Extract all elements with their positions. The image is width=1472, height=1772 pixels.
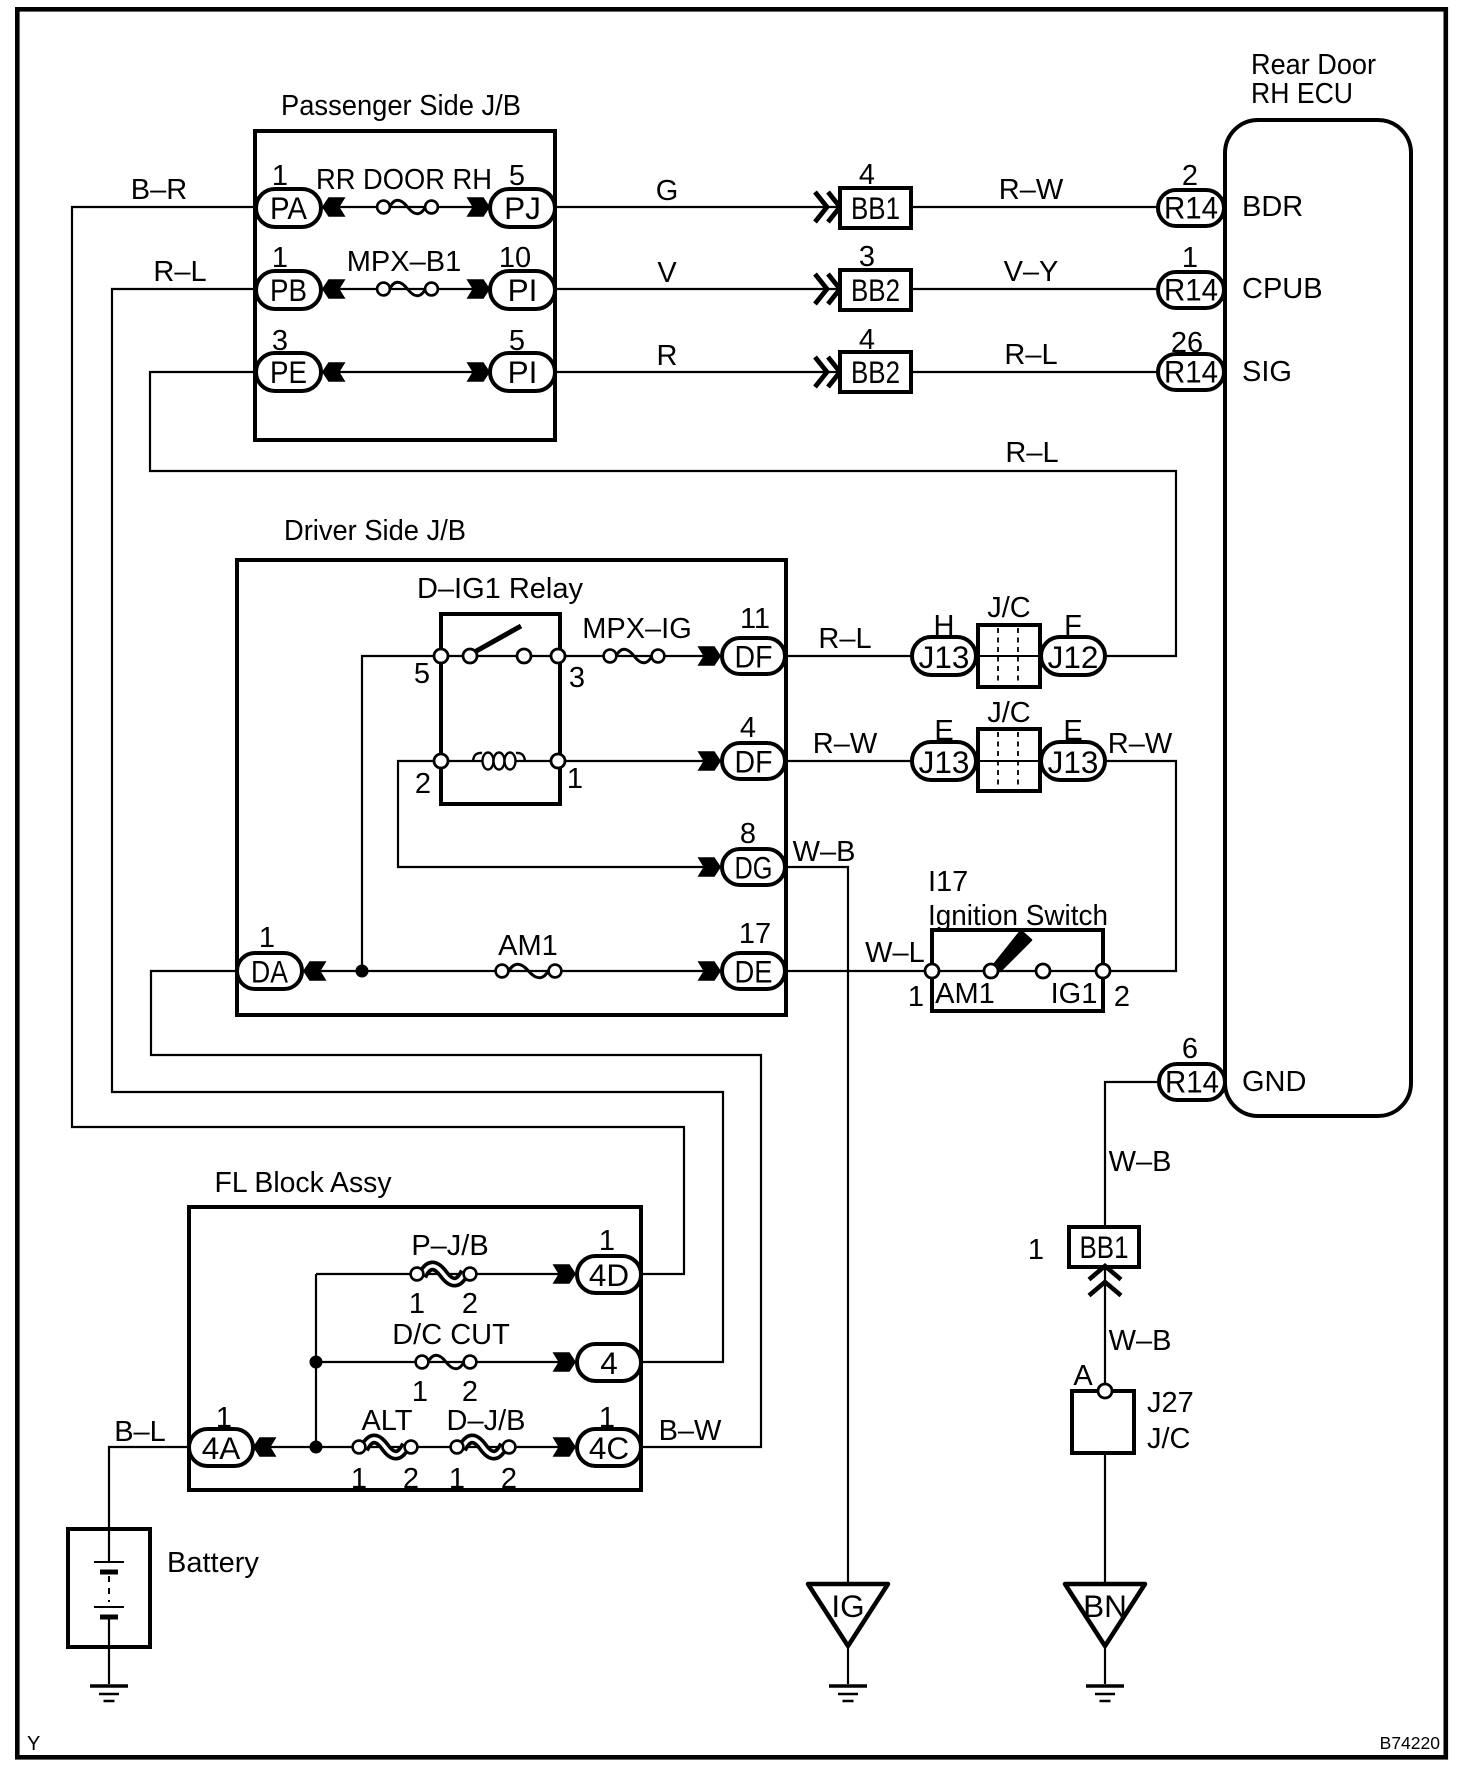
svg-text:BB1: BB1 <box>1080 1229 1129 1265</box>
wire BN triangle to ground <box>1104 1646 1106 1684</box>
svg-text:R–W: R–W <box>999 174 1064 206</box>
connector 4A pin1 <box>189 1429 253 1466</box>
ignition terminal IG1 <box>1036 964 1050 978</box>
svg-text:4D: 4D <box>589 1257 629 1293</box>
connector DF pin4 <box>722 743 785 779</box>
wire B-R: PA pin1 to FL 4D via left side <box>72 207 684 1274</box>
BN ground triangle <box>1065 1584 1145 1646</box>
wire DA junction to relay pin5 <box>362 656 441 971</box>
D-IG1 Relay box <box>441 614 560 804</box>
svg-text:1: 1 <box>599 1402 615 1434</box>
wire R-L: PE pin3 to J12 F via top route <box>150 372 1176 656</box>
wire G: PJ to BB1 <box>555 206 840 208</box>
svg-text:W–B: W–B <box>793 836 856 868</box>
connector R14 pin26 SIG <box>1158 354 1224 390</box>
svg-text:5: 5 <box>509 325 525 357</box>
connector BB2 pin3 <box>840 270 911 310</box>
chevron below BB1 <box>1089 1266 1121 1296</box>
wire R-W: DF4 to J13 E <box>785 760 912 762</box>
relay coil <box>473 753 525 761</box>
svg-text:Rear Door: Rear Door <box>1251 49 1376 81</box>
svg-text:I17: I17 <box>928 866 968 898</box>
connector DA pin1 <box>237 953 302 989</box>
svg-text:R–W: R–W <box>813 728 878 760</box>
connector J12 F <box>1041 637 1105 675</box>
svg-text:3: 3 <box>569 662 585 694</box>
svg-text:MPX–IG: MPX–IG <box>582 613 692 645</box>
wire W-B: R14 GND down to BB1 and J27 and BN <box>1105 1082 1159 1584</box>
svg-text:17: 17 <box>739 918 771 950</box>
svg-text:J12: J12 <box>1048 639 1099 675</box>
svg-text:BB1: BB1 <box>851 190 900 226</box>
wire relay switch row to DF pin11 through MPX-IG fuse <box>441 655 722 657</box>
J27 J/C box <box>1072 1391 1134 1453</box>
svg-text:11: 11 <box>740 603 770 635</box>
svg-text:1: 1 <box>272 160 288 192</box>
junction dot D/C CUT <box>310 1356 323 1369</box>
connector PJ pin5 <box>490 189 555 227</box>
Rear Door RH ECU box <box>1225 120 1411 1116</box>
svg-text:E: E <box>1063 715 1082 747</box>
connector PB pin1 <box>256 271 321 309</box>
connector PA pin1 <box>256 189 321 227</box>
svg-text:AM1: AM1 <box>935 978 995 1010</box>
svg-text:SIG: SIG <box>1242 356 1292 388</box>
wire DA to DE through AM1 fuse <box>302 970 722 972</box>
svg-text:A: A <box>1073 1360 1093 1392</box>
svg-text:RH ECU: RH ECU <box>1251 78 1353 110</box>
arrow out of 4A <box>253 1437 277 1457</box>
wire R: PI to BB2 <box>555 371 840 373</box>
svg-text:Passenger Side J/B: Passenger Side J/B <box>281 90 521 122</box>
ignition switch I17 box <box>932 930 1103 1011</box>
connector DE pin17 <box>722 953 785 989</box>
wire relay coil row to DF pin4 <box>441 760 722 762</box>
svg-text:5: 5 <box>509 160 525 192</box>
connector BB1 pin4 <box>840 188 911 228</box>
svg-text:DE: DE <box>735 954 773 990</box>
junction dot at DA <box>356 965 369 978</box>
svg-text:2: 2 <box>1114 981 1130 1013</box>
battery cell 2 <box>94 1606 124 1608</box>
wire B-L: 4A to battery <box>109 1447 189 1562</box>
wire V: PI to BB2 <box>555 288 840 290</box>
svg-text:CPUB: CPUB <box>1242 273 1323 305</box>
wire R-L: PB pin1 to FL 4 oval <box>112 289 723 1362</box>
svg-text:1: 1 <box>908 981 924 1013</box>
svg-text:ALT: ALT <box>361 1405 412 1437</box>
svg-text:D–IG1 Relay: D–IG1 Relay <box>417 573 584 605</box>
svg-text:BN: BN <box>1083 1588 1127 1624</box>
svg-text:Driver Side J/B: Driver Side J/B <box>284 515 466 547</box>
svg-text:J/C: J/C <box>987 592 1031 624</box>
connector R14 pin2 BDR <box>1158 190 1224 226</box>
svg-text:R–L: R–L <box>1004 339 1057 371</box>
svg-text:D/C CUT: D/C CUT <box>392 1319 510 1351</box>
svg-text:AM1: AM1 <box>498 930 558 962</box>
wire inside ignition switch <box>932 970 1103 972</box>
arrow into PB <box>322 279 346 299</box>
svg-text:B–R: B–R <box>131 174 187 206</box>
svg-text:PE: PE <box>270 354 307 390</box>
svg-text:B74220: B74220 <box>1380 1733 1441 1753</box>
chevron into BB2 lower <box>815 357 840 387</box>
arrow into 4C <box>553 1437 577 1457</box>
node A terminal <box>1098 1384 1112 1398</box>
wire PE to PI <box>321 371 491 373</box>
svg-text:R–L: R–L <box>1005 437 1058 469</box>
ground under IG <box>829 1686 867 1701</box>
svg-text:Y: Y <box>27 1733 40 1755</box>
J/C junction box upper <box>978 625 1040 687</box>
FL Block Assy box <box>189 1207 641 1490</box>
svg-text:1: 1 <box>351 1463 367 1495</box>
arrow into 4D <box>553 1264 577 1284</box>
svg-text:J13: J13 <box>919 639 970 675</box>
arrow into PI lower <box>467 362 491 382</box>
svg-text:1: 1 <box>412 1376 428 1408</box>
connector 4 <box>577 1344 641 1381</box>
connector R14 pin6 GND <box>1159 1064 1225 1100</box>
wire battery to ground <box>108 1617 110 1684</box>
svg-text:1: 1 <box>1028 1234 1044 1266</box>
ground under BN <box>1086 1686 1124 1701</box>
wire relay pin2 to DG pin8 <box>398 761 722 867</box>
wire P-J/B row <box>316 1273 577 1275</box>
connector BB1 pin1 lower <box>1069 1227 1139 1267</box>
arrow into 4 <box>553 1352 577 1372</box>
arrow into PI <box>467 279 491 299</box>
svg-text:J/C: J/C <box>987 697 1031 729</box>
svg-text:26: 26 <box>1171 327 1203 359</box>
svg-text:PI: PI <box>508 272 538 308</box>
wire R-L: BB2 to R14 pin26 <box>911 371 1158 373</box>
svg-text:PJ: PJ <box>504 190 541 226</box>
svg-text:R: R <box>657 340 678 372</box>
svg-text:P–J/B: P–J/B <box>411 1230 488 1262</box>
svg-text:1: 1 <box>1182 242 1198 274</box>
svg-text:J27: J27 <box>1147 1387 1194 1419</box>
svg-text:Battery: Battery <box>167 1547 259 1579</box>
svg-text:W–B: W–B <box>1109 1146 1172 1178</box>
svg-text:B–L: B–L <box>114 1416 166 1448</box>
svg-text:1: 1 <box>216 1402 232 1434</box>
svg-text:BB2: BB2 <box>851 272 900 308</box>
ground under battery <box>90 1686 128 1701</box>
arrow into PJ <box>467 197 491 217</box>
connector PE pin3 <box>256 353 321 391</box>
arrow into PA <box>322 197 346 217</box>
svg-text:IG1: IG1 <box>1051 978 1098 1010</box>
svg-text:3: 3 <box>272 325 288 357</box>
svg-text:PI: PI <box>508 354 538 390</box>
arrow into DF11 <box>698 646 722 666</box>
svg-text:DF: DF <box>735 744 773 780</box>
chevron into BB1 <box>815 192 840 222</box>
svg-text:PA: PA <box>270 190 307 226</box>
wire B-W: FL 4C to DA pin1 <box>151 971 761 1447</box>
svg-text:4: 4 <box>859 159 875 191</box>
arrow into DF4 <box>698 751 722 771</box>
svg-text:1: 1 <box>409 1288 425 1320</box>
svg-text:R14: R14 <box>1165 1064 1219 1100</box>
connector 4D pin1 <box>577 1256 641 1293</box>
connector R14 pin1 CPUB <box>1158 272 1224 308</box>
svg-text:FL Block Assy: FL Block Assy <box>215 1167 392 1199</box>
arrow into DG <box>698 857 722 877</box>
svg-text:V–Y: V–Y <box>1004 256 1059 288</box>
wire V-Y: BB2 to R14 pin1 <box>911 288 1158 290</box>
svg-text:DF: DF <box>735 639 773 675</box>
wire R-L: DF11 to J13 H <box>785 655 912 657</box>
svg-text:V: V <box>657 257 677 289</box>
ignition terminal 1 <box>925 964 939 978</box>
svg-text:2: 2 <box>462 1288 478 1320</box>
connector J13 H <box>912 637 976 675</box>
wire D/C CUT row <box>316 1361 577 1363</box>
svg-text:W–B: W–B <box>1109 1325 1172 1357</box>
svg-text:2: 2 <box>1182 160 1198 192</box>
svg-text:R14: R14 <box>1164 272 1218 308</box>
svg-text:4: 4 <box>740 712 756 744</box>
battery cell 1 <box>94 1561 124 1563</box>
ignition terminal 2 <box>1096 964 1110 978</box>
connector J13 E left <box>912 742 976 780</box>
svg-text:4A: 4A <box>202 1430 241 1466</box>
svg-text:2: 2 <box>403 1463 419 1495</box>
connector DF pin11 <box>722 638 785 674</box>
arrow into DE <box>698 961 722 981</box>
svg-text:6: 6 <box>1182 1033 1198 1065</box>
connector J13 E right <box>1041 742 1105 780</box>
wire R-W: BB1 to R14 pin2 <box>911 206 1158 208</box>
ignition key symbol <box>993 931 1031 971</box>
svg-text:4: 4 <box>600 1345 618 1381</box>
svg-text:2: 2 <box>501 1463 517 1495</box>
svg-text:4: 4 <box>859 324 875 356</box>
svg-text:2: 2 <box>415 768 431 800</box>
svg-text:R–W: R–W <box>1108 728 1173 760</box>
battery box <box>68 1529 150 1647</box>
relay pin 5 <box>434 649 448 663</box>
svg-text:5: 5 <box>414 658 430 690</box>
svg-text:BB2: BB2 <box>851 354 900 390</box>
connector 4C pin1 <box>577 1429 641 1466</box>
svg-text:J13: J13 <box>1048 744 1099 780</box>
svg-text:E: E <box>934 715 953 747</box>
svg-text:GND: GND <box>1242 1066 1306 1098</box>
connector PI pin5 lower <box>490 353 555 391</box>
wire ALT / D-J/B row <box>252 1446 577 1448</box>
battery dashed link <box>108 1576 110 1602</box>
wire W-B: DG to IG ground triangle <box>785 867 848 1584</box>
relay switch blade <box>471 626 521 654</box>
connector DG pin8 <box>722 849 785 885</box>
svg-text:4C: 4C <box>589 1430 629 1466</box>
svg-text:2: 2 <box>462 1376 478 1408</box>
relay pin 2 <box>434 754 448 768</box>
svg-text:DA: DA <box>251 954 288 990</box>
relay pin 3 <box>551 649 565 663</box>
IG ground triangle <box>808 1584 888 1646</box>
wire PB to PI through fuse <box>321 288 491 290</box>
svg-text:H: H <box>934 610 955 642</box>
svg-text:D–J/B: D–J/B <box>447 1405 526 1437</box>
svg-text:R14: R14 <box>1164 190 1218 226</box>
svg-text:Ignition Switch: Ignition Switch <box>928 900 1108 932</box>
svg-text:BDR: BDR <box>1242 191 1303 223</box>
ignition terminal AM1 <box>984 964 998 978</box>
svg-text:F: F <box>1064 610 1082 642</box>
wire FL feed vertical <box>315 1274 317 1447</box>
svg-text:10: 10 <box>499 242 531 274</box>
arrow into PE <box>322 362 346 382</box>
svg-text:B–W: B–W <box>659 1415 722 1447</box>
Passenger Side J/B box <box>255 131 555 440</box>
svg-text:RR DOOR RH: RR DOOR RH <box>316 164 492 196</box>
svg-text:IG: IG <box>831 1588 864 1624</box>
J/C junction box lower <box>978 729 1040 791</box>
svg-text:R–L: R–L <box>818 623 871 655</box>
svg-text:1: 1 <box>599 1225 615 1257</box>
svg-text:DG: DG <box>735 850 773 886</box>
svg-text:8: 8 <box>740 818 756 850</box>
connector PI pin10 <box>490 271 555 309</box>
arrow out of DA <box>303 961 327 981</box>
wire W-L: DE to ignition switch pin1 <box>785 970 932 972</box>
connector BB2 pin4 lower <box>840 352 911 392</box>
wire R-W: ignition pin2 up to J13 E <box>1103 761 1176 971</box>
svg-text:G: G <box>656 175 679 207</box>
svg-text:1: 1 <box>567 763 583 795</box>
svg-text:3: 3 <box>859 241 875 273</box>
relay switch contact circles <box>463 649 477 663</box>
svg-text:J13: J13 <box>919 744 970 780</box>
chevron into BB2 <box>815 274 840 304</box>
svg-text:J/C: J/C <box>1147 1423 1191 1455</box>
svg-text:1: 1 <box>272 242 288 274</box>
wire IG triangle to ground <box>847 1646 849 1684</box>
Driver Side J/B box <box>237 560 786 1015</box>
wire PA to PJ through fuse <box>321 206 491 208</box>
svg-text:1: 1 <box>449 1463 465 1495</box>
svg-text:R–L: R–L <box>153 256 206 288</box>
svg-text:W–L: W–L <box>865 937 925 969</box>
junction dot ALT row <box>310 1441 323 1454</box>
relay pin 1 <box>551 754 565 768</box>
svg-text:MPX–B1: MPX–B1 <box>347 246 461 278</box>
svg-text:PB: PB <box>270 272 307 308</box>
svg-text:1: 1 <box>259 922 275 954</box>
